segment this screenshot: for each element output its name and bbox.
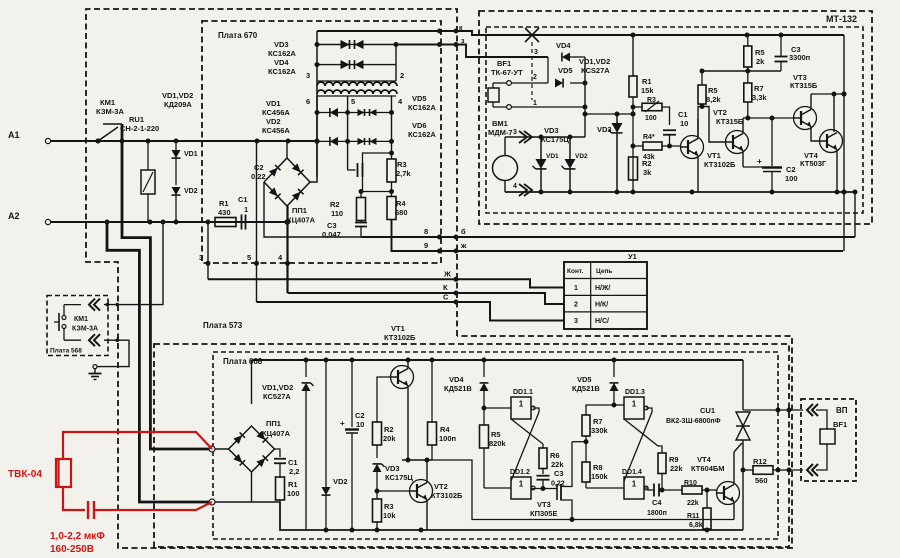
svg-text:820k: 820k	[489, 439, 507, 448]
svg-text:R4: R4	[440, 425, 450, 434]
svg-text:VD2: VD2	[266, 117, 281, 126]
svg-text:100: 100	[785, 174, 798, 183]
svg-text:680: 680	[395, 208, 408, 217]
diode VD1 КС456А	[317, 108, 348, 117]
label к	[459, 25, 463, 32]
board frame Плата 568	[47, 296, 108, 356]
svg-text:МДМ-7: МДМ-7	[488, 128, 513, 137]
svg-text:VD2: VD2	[333, 477, 348, 486]
label Плата 670	[218, 31, 258, 40]
svg-text:10: 10	[680, 119, 688, 128]
node mains bottom	[209, 499, 252, 505]
zener VD2 (МТ-132)	[562, 137, 576, 192]
svg-text:КС456А: КС456А	[262, 108, 290, 117]
svg-text:У1: У1	[628, 252, 637, 261]
svg-text:VD1,VD2: VD1,VD2	[162, 91, 193, 100]
diode VD2 (668)	[322, 360, 348, 530]
svg-text:КС456А: КС456А	[262, 126, 290, 135]
svg-text:22k: 22k	[687, 500, 699, 507]
label з	[461, 38, 465, 45]
svg-text:КСS27А: КСS27А	[581, 66, 610, 75]
resistor R4* 43k (МТ-132)	[633, 134, 681, 161]
svg-text:2,7k: 2,7k	[396, 169, 411, 178]
resistor R5 820k (668)	[480, 408, 507, 488]
svg-text:КД209А: КД209А	[164, 100, 192, 109]
motor BM1 МДМ-7	[493, 131, 586, 196]
svg-text:КТ604БМ: КТ604БМ	[691, 464, 725, 473]
svg-text:R11: R11	[687, 513, 700, 520]
svg-text:ВМ1: ВМ1	[492, 119, 508, 128]
relay contact КМ1 lower (Плата 568)	[62, 325, 100, 347]
label 8	[424, 227, 428, 236]
svg-text:VD1,VD2: VD1,VD2	[579, 57, 610, 66]
svg-text:150k: 150k	[591, 472, 609, 481]
heater BF1 (ВП)	[820, 420, 847, 444]
diode VD1 (КД209А)	[172, 141, 198, 185]
zener pair VD6 КС162А	[348, 138, 392, 145]
svg-text:ж: ж	[460, 241, 467, 250]
triac CU1	[724, 360, 750, 470]
zener VD3 (МТ-132)	[597, 114, 623, 192]
label VD3 КС175Ц (МТ-132)	[541, 126, 569, 144]
svg-text:C2: C2	[786, 165, 796, 174]
rail top 668	[252, 358, 744, 363]
bottom rail МТ-132	[505, 190, 855, 195]
svg-text:КМ1: КМ1	[100, 98, 115, 107]
svg-text:C3: C3	[327, 221, 337, 230]
svg-text:+: +	[757, 156, 762, 166]
wire bridge left loop	[264, 182, 361, 237]
svg-text:VD4: VD4	[556, 41, 571, 50]
resistor R10 22k (668)	[682, 480, 717, 507]
svg-text:R9: R9	[669, 455, 679, 464]
svg-text:С1: С1	[288, 458, 298, 467]
svg-text:КТ315Б: КТ315Б	[790, 81, 818, 90]
label VT1 КТ3102Б (МТ-132)	[704, 151, 736, 169]
board frame Плата 670	[202, 21, 441, 263]
wire emitter join	[402, 458, 432, 463]
pin 3 label	[199, 253, 203, 262]
svg-text:R1: R1	[288, 480, 298, 489]
svg-text:КТ503Г: КТ503Г	[800, 159, 827, 168]
svg-text:C1: C1	[678, 110, 688, 119]
svg-text:560: 560	[755, 476, 768, 485]
svg-text:Н/С/: Н/С/	[595, 318, 609, 325]
svg-text:КС175Ц: КС175Ц	[385, 473, 413, 482]
label КМ1 КЗМ-3А (568)	[72, 316, 98, 333]
svg-text:1: 1	[533, 100, 537, 107]
svg-text:10k: 10k	[383, 511, 396, 520]
board frame МТ-132 inner	[486, 27, 863, 213]
svg-text:2: 2	[574, 302, 578, 309]
pin 4 label	[278, 253, 283, 262]
wire mains W2 from KM1 switch	[122, 124, 212, 449]
svg-text:C4: C4	[652, 498, 662, 507]
diode VD2 КС456А	[317, 137, 348, 146]
wire VT2 base (668)	[377, 490, 410, 492]
svg-text:VD1: VD1	[266, 99, 281, 108]
svg-text:160-250В: 160-250В	[50, 544, 94, 555]
svg-text:1: 1	[519, 480, 524, 489]
svg-text:С1: С1	[238, 195, 248, 204]
svg-text:5: 5	[247, 253, 251, 262]
transistor VT1 КТ3102Б (МТ-132)	[681, 119, 704, 192]
transistor VT4 КТ604БМ (668)	[717, 452, 740, 520]
wire R2 top link	[359, 189, 395, 194]
transistor VT1 КТ3102Б (668)	[391, 360, 414, 460]
resistor R2 20k (668)	[373, 422, 397, 458]
svg-text:б: б	[461, 227, 466, 236]
svg-text:КТ3102Б: КТ3102Б	[704, 160, 736, 169]
svg-text:9: 9	[424, 241, 428, 250]
wire fet drain to R7 R8	[572, 439, 589, 444]
diode VD4 (МТ-132)	[548, 41, 585, 83]
label VT4 КТ503Г (МТ-132)	[800, 151, 827, 168]
svg-text:BF1: BF1	[833, 420, 847, 429]
wire CU1 top out	[743, 408, 803, 413]
label VT1 КТ3102Б (573)	[384, 324, 416, 342]
svg-text:R2: R2	[330, 200, 340, 209]
svg-text:VT1: VT1	[391, 324, 405, 333]
label VD3 КС162А VD4 КС162А	[268, 40, 296, 76]
wire 7 to VD4	[532, 56, 548, 58]
resistor R7 3,3k (МТ-132)	[744, 71, 768, 118]
svg-text:100: 100	[645, 115, 657, 122]
svg-text:5: 5	[351, 97, 355, 106]
wire VT1 base chain	[377, 377, 391, 422]
zener VD1 (МТ-132)	[533, 137, 547, 192]
svg-text:ВП: ВП	[836, 406, 848, 415]
svg-text:Плата 670: Плата 670	[218, 31, 258, 40]
svg-text:R3: R3	[647, 97, 656, 104]
svg-text:R4*: R4*	[643, 134, 655, 141]
resistor R5 2k (МТ-132)	[744, 35, 765, 71]
svg-text:VT4: VT4	[697, 455, 712, 464]
wire base VT3 (МТ-132)	[743, 116, 794, 121]
svg-text:VD3: VD3	[544, 126, 559, 135]
capacitor C3 0,22 (668)	[537, 469, 565, 492]
svg-text:3: 3	[306, 71, 310, 80]
diode VD5 (МТ-132)	[555, 66, 585, 88]
terminal A1	[8, 130, 51, 144]
svg-text:R5: R5	[491, 430, 501, 439]
svg-text:Цепь: Цепь	[596, 268, 612, 275]
bridge ПП1 КЦ407А (668)	[229, 426, 275, 472]
svg-text:3k: 3k	[643, 168, 652, 177]
svg-text:R6: R6	[550, 451, 560, 460]
capacitor red 1,0-2,2 мкФ	[88, 501, 94, 519]
svg-text:VD2: VD2	[575, 153, 588, 160]
svg-text:330k: 330k	[591, 426, 609, 435]
svg-text:C2: C2	[355, 411, 365, 420]
svg-text:VD1: VD1	[184, 151, 198, 158]
svg-text:VD5: VD5	[558, 66, 573, 75]
label VD1 VD2 (МТ-132)	[546, 153, 588, 160]
svg-text:3,3k: 3,3k	[752, 93, 767, 102]
gate DD1.3	[614, 389, 648, 419]
svg-text:R10: R10	[684, 480, 697, 487]
cross coupling DD1.3-DD1.4	[624, 408, 658, 481]
label pins BF1	[533, 49, 538, 107]
svg-text:VT3: VT3	[537, 500, 551, 509]
svg-text:КС162А: КС162А	[268, 49, 296, 58]
label КМ1 КЗМ-3А	[96, 98, 124, 116]
label VD1,VD2 КСS27А (МТ-132)	[579, 57, 610, 75]
svg-text:КЗМ-3А: КЗМ-3А	[72, 326, 98, 333]
label С	[443, 293, 449, 302]
cross coupling DD1.1-DD1.2	[511, 408, 543, 481]
wire CU1 down	[742, 470, 744, 530]
svg-text:R7: R7	[754, 84, 764, 93]
wire A2 line	[51, 219, 290, 224]
label Плата 573	[203, 321, 243, 330]
switch contact KM1	[96, 124, 125, 144]
pin 5 winding label	[351, 97, 355, 106]
svg-text:2: 2	[533, 74, 537, 81]
connector box ВП	[801, 399, 856, 481]
wire 9 ж	[392, 220, 844, 254]
transistor VT2 КТ315Б (МТ-132)	[726, 118, 764, 167]
svg-text:R2: R2	[642, 159, 652, 168]
svg-text:Плата 573: Плата 573	[203, 321, 243, 330]
capacitor C3 0,047 (670)	[322, 221, 367, 240]
wire С	[257, 300, 565, 321]
label motor pins	[513, 129, 517, 190]
gate DD1.1	[484, 389, 535, 419]
svg-text:8: 8	[424, 227, 428, 236]
contact circle BF1 lower	[493, 102, 588, 110]
diode VD5 КД521В (668)	[610, 360, 619, 408]
svg-text:R3: R3	[397, 160, 407, 169]
svg-text:C2: C2	[254, 163, 264, 172]
svg-text:VD5: VD5	[577, 375, 592, 384]
svg-text:VD3: VD3	[385, 464, 400, 473]
capacitor C2 10 (668)	[340, 360, 365, 530]
svg-text:100п: 100п	[439, 434, 456, 443]
svg-text:СН-2-1-220: СН-2-1-220	[120, 124, 159, 133]
wire red top	[63, 432, 212, 459]
svg-text:А2: А2	[8, 211, 20, 221]
svg-text:МТ-132: МТ-132	[826, 14, 857, 24]
svg-text:8,2k: 8,2k	[706, 95, 721, 104]
svg-text:4: 4	[398, 97, 403, 106]
zener pair VD5 КС162А	[348, 109, 392, 116]
resistor R8 150k (668)	[582, 462, 609, 488]
label б	[461, 227, 466, 236]
wire red bottom	[63, 487, 85, 510]
svg-text:R1: R1	[642, 77, 652, 86]
svg-text:VD5: VD5	[412, 94, 427, 103]
wire mains W1	[107, 222, 212, 502]
svg-text:0,22: 0,22	[251, 172, 266, 181]
resistor R1 100 (668)	[276, 477, 300, 502]
resistor R7 330k (668)	[582, 405, 614, 462]
svg-text:110: 110	[331, 209, 343, 218]
resistor R6 22k (668)	[539, 444, 564, 469]
transistor VT3 КТ315Б right (МТ-132)	[794, 94, 821, 141]
svg-text:К: К	[443, 283, 448, 292]
svg-text:2: 2	[400, 71, 404, 80]
svg-text:RU1: RU1	[129, 115, 144, 124]
wire 8 б	[361, 235, 855, 240]
wire bridge right to stack	[310, 31, 317, 182]
label VT2 КТ3102Б (668)	[431, 482, 463, 500]
capacitor C1 2,2 (668)	[274, 458, 299, 477]
label 1,0-2,2 мкФ 160-250В	[50, 531, 105, 555]
label VD6 КС162А	[408, 121, 436, 139]
svg-text:22k: 22k	[670, 464, 683, 473]
ground	[89, 369, 102, 380]
svg-text:0,047: 0,047	[322, 230, 341, 239]
label BF1 ТК-67-УТ	[491, 59, 523, 77]
svg-text:С: С	[443, 293, 449, 302]
svg-text:Н/Ж/: Н/Ж/	[595, 285, 610, 292]
svg-text:10: 10	[356, 420, 364, 429]
svg-text:VD3: VD3	[274, 40, 289, 49]
wire 6 top	[317, 29, 844, 38]
label VT4 КТ604БМ (668)	[691, 455, 725, 473]
svg-text:VT2: VT2	[434, 482, 448, 491]
resistor R3 10k (668)	[373, 499, 397, 530]
svg-text:6: 6	[306, 97, 310, 106]
svg-text:VD3: VD3	[597, 125, 612, 134]
zener pair VD3 КС162А	[315, 40, 397, 49]
resistor R9 22k (668)	[658, 446, 683, 493]
bridge ПП1 КЦ407А (670)	[264, 158, 310, 206]
svg-text:R12: R12	[753, 457, 767, 466]
resistor R2 110 (670)	[330, 192, 366, 221]
label Плата 668	[223, 357, 263, 366]
svg-text:Плата 668: Плата 668	[223, 357, 263, 366]
label VT2 КТ315Б (МТ-132)	[713, 108, 744, 126]
resistor R12 560	[741, 457, 804, 485]
svg-text:КП305Е: КП305Е	[530, 509, 557, 518]
svg-text:1: 1	[244, 205, 248, 214]
zener pair VD4 КС162А	[315, 60, 397, 69]
svg-text:1: 1	[632, 400, 637, 409]
svg-text:1: 1	[574, 285, 578, 292]
trimmer R3 100 (МТ-132)	[633, 97, 670, 125]
resistor R5 8,2k (МТ-132)	[698, 69, 721, 107]
mech link BF1 dashed	[531, 42, 533, 100]
svg-text:КД521В: КД521В	[444, 384, 472, 393]
svg-text:Плата 568: Плата 568	[50, 348, 82, 355]
svg-text:1,0-2,2 мкФ: 1,0-2,2 мкФ	[50, 531, 105, 542]
resistor R1 430	[215, 199, 236, 227]
rail bottom dots 668	[324, 528, 710, 533]
zener VD1 КС527А (668)	[302, 360, 314, 530]
resistor R3 2,7k (670)	[387, 159, 411, 197]
wire collectors join	[811, 92, 847, 97]
wire 7	[394, 42, 549, 57]
svg-text:R8: R8	[593, 463, 603, 472]
svg-text:КЗМ-3А: КЗМ-3А	[96, 107, 124, 116]
wire bottom jog 668	[252, 502, 744, 530]
label К	[443, 283, 448, 292]
label VD1 VD2 КС456А	[262, 99, 290, 135]
svg-text:+: +	[340, 419, 345, 428]
wire A1 line	[51, 139, 320, 144]
svg-text:R3: R3	[384, 502, 394, 511]
wire pin2 vertical	[396, 45, 404, 82]
svg-text:3: 3	[534, 49, 538, 56]
transistor VT4 КТ503Г (МТ-132)	[820, 94, 843, 192]
connector table У1	[564, 262, 647, 329]
label Плата 568	[50, 348, 82, 355]
svg-text:КС527А: КС527А	[263, 392, 291, 401]
svg-text:3: 3	[199, 253, 203, 262]
label VD5 КС162А	[408, 94, 436, 112]
wire into BF1 top	[816, 410, 827, 429]
transformer ТВК-04 red	[56, 459, 71, 487]
svg-text:1: 1	[519, 400, 524, 409]
svg-text:VT1: VT1	[707, 151, 721, 160]
svg-text:2,2: 2,2	[289, 467, 299, 476]
wire R1 input	[202, 221, 215, 223]
contact X BF1	[525, 28, 539, 42]
svg-text:ПП1: ПП1	[292, 206, 307, 215]
svg-text:КС162А: КС162А	[408, 130, 436, 139]
resistor R2 3k (МТ-132)	[629, 157, 653, 192]
contact circle BF1 upper	[493, 81, 548, 88]
svg-text:100: 100	[287, 489, 300, 498]
gate DD1.2	[484, 469, 535, 499]
svg-text:15k: 15k	[641, 86, 654, 95]
svg-text:R5: R5	[708, 86, 718, 95]
label VD1,VD2 КС527А (668)	[262, 383, 293, 401]
svg-text:4: 4	[513, 183, 517, 190]
svg-text:DD1.4: DD1.4	[622, 469, 642, 476]
svg-text:1: 1	[632, 480, 637, 489]
relay armature КМ1	[54, 313, 59, 331]
relay contact КМ1 upper (Плата 568)	[62, 299, 100, 320]
connector chevrons bottom ВП	[807, 464, 818, 476]
transformer winding T1 670	[317, 81, 397, 96]
wire bridge top 668	[251, 360, 253, 404]
wire red bottom 2	[94, 502, 212, 510]
varistor RU1	[141, 141, 155, 222]
resistor R1 15k (МТ-132)	[629, 35, 654, 192]
wire VT1 collector to VT2 base	[698, 104, 727, 142]
wire stack left vertical	[315, 96, 320, 177]
label ТВК-04	[8, 469, 42, 480]
svg-text:ТК-67-УТ: ТК-67-УТ	[491, 68, 523, 77]
svg-text:R7: R7	[593, 417, 603, 426]
thermal relay BF1 heater	[488, 88, 499, 102]
svg-text:R1: R1	[219, 199, 229, 208]
board frame МТ-132 outer	[479, 11, 872, 224]
svg-text:R4: R4	[396, 199, 406, 208]
zener VD3 КС175Ц (668)	[373, 464, 414, 499]
svg-text:3: 3	[574, 318, 578, 325]
rail right vertical МТ-132	[842, 35, 847, 251]
label VD5 КД521В (668)	[572, 375, 600, 393]
label ж	[460, 241, 467, 250]
wire KM1 lower to ground	[93, 338, 129, 368]
svg-text:430: 430	[218, 208, 231, 217]
wire К	[288, 291, 565, 305]
svg-text:КТ3102Б: КТ3102Б	[431, 491, 463, 500]
svg-text:3: 3	[513, 129, 517, 136]
svg-text:КТ315Б: КТ315Б	[716, 117, 744, 126]
svg-text:C3: C3	[554, 469, 564, 478]
svg-text:Конт.: Конт.	[567, 268, 583, 275]
terminal A2	[8, 211, 51, 225]
svg-text:А1: А1	[8, 130, 20, 140]
svg-text:1800п: 1800п	[647, 510, 667, 517]
svg-text:КД521В: КД521В	[572, 384, 600, 393]
label ВП	[836, 406, 848, 415]
